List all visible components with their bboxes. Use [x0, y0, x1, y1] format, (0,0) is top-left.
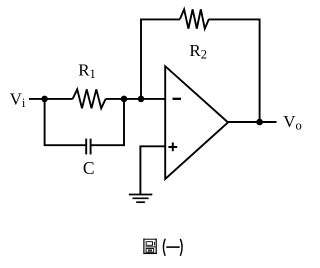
wire noninverting input to ground	[140, 146, 165, 194]
svg-text:C: C	[83, 158, 95, 178]
wire feedback down	[209, 19, 260, 122]
caption close paren	[180, 239, 182, 256]
capacitor C	[86, 139, 90, 155]
op-amp minus sign	[173, 98, 182, 100]
node feedback junction	[138, 96, 145, 103]
node capacitor branch junction	[121, 96, 128, 103]
wire input	[29, 98, 73, 100]
ground	[129, 195, 153, 203]
caption glyph Tu (figure)	[143, 239, 157, 254]
wire R1 to op-amp	[106, 98, 166, 100]
node output junction	[256, 119, 263, 126]
op-amp U1	[165, 66, 228, 179]
caption glyph one	[166, 246, 179, 248]
wire capacitor branch right	[91, 99, 124, 145]
wire output	[227, 121, 277, 123]
resistor R1	[73, 89, 106, 108]
wire feedback up	[141, 19, 180, 99]
resistor R2	[180, 9, 209, 28]
caption open paren	[163, 239, 165, 256]
op-amp plus sign	[168, 143, 177, 152]
node input junction	[41, 96, 48, 103]
wire capacitor branch left	[45, 99, 87, 145]
